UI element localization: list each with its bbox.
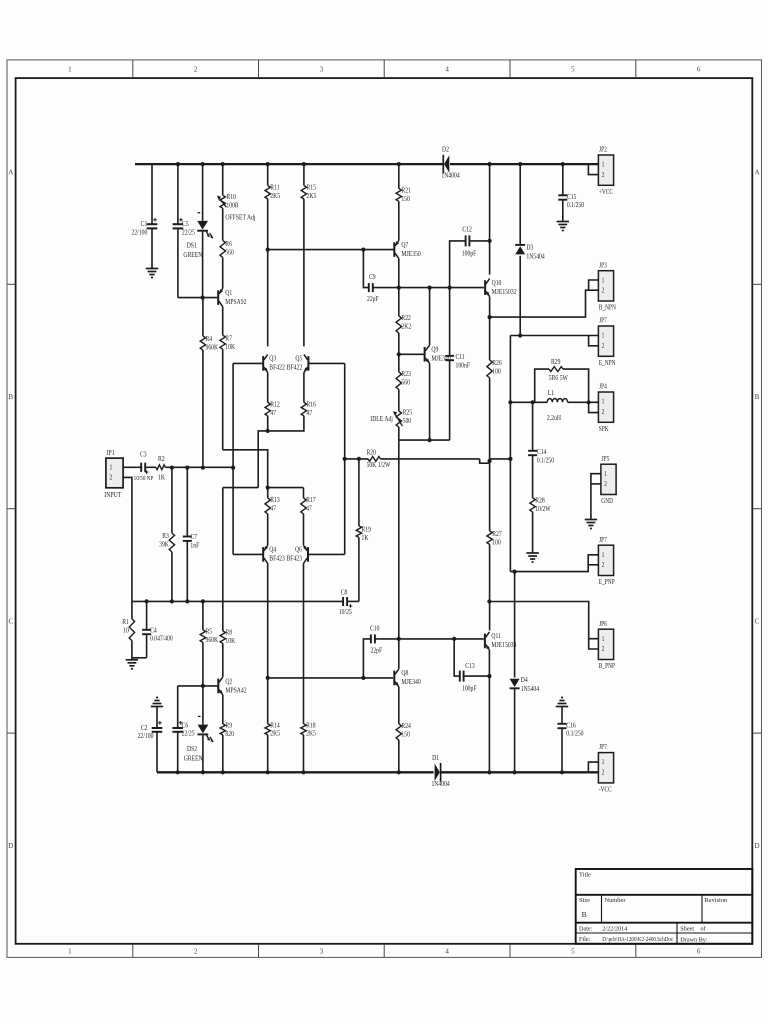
svg-text:C5: C5 [182, 220, 189, 228]
svg-text:BF422: BF422 [287, 364, 302, 372]
svg-text:5: 5 [571, 66, 575, 74]
svg-text:1: 1 [602, 398, 605, 406]
junction rail/Q11 [487, 770, 491, 774]
wire R27 leads [489, 463, 491, 531]
resistor R16 [301, 372, 316, 417]
wire Q10 emitter down [489, 297, 491, 360]
transistor Q4 [263, 545, 285, 563]
junction C11/node [448, 286, 452, 290]
junction rail/D3 [518, 162, 522, 166]
wire Q4 base [233, 553, 262, 555]
junction DS1/R4/base [201, 296, 205, 300]
wire output to speaker line [490, 458, 511, 460]
svg-text:Q10: Q10 [492, 279, 502, 287]
junction rail/R14 [266, 770, 270, 774]
junction B_PNP tap [487, 599, 491, 603]
svg-text:2K5: 2K5 [307, 192, 317, 200]
svg-text:R28: R28 [535, 497, 545, 505]
svg-text:100pF: 100pF [462, 250, 477, 258]
diode D1 [431, 754, 450, 788]
svg-text:R12: R12 [270, 401, 279, 409]
svg-text:2K2: 2K2 [401, 323, 411, 331]
svg-text:R26: R26 [492, 359, 502, 367]
wire L1 feed [510, 401, 547, 403]
wire JP1 pin2 down [123, 477, 132, 601]
svg-text:5R6 5W: 5R6 5W [549, 374, 569, 382]
junction return/R3 [170, 599, 174, 603]
resistor R4 [200, 298, 218, 352]
svg-text:Q4: Q4 [269, 546, 277, 554]
connector JP6 (B_PNP) [598, 620, 615, 670]
svg-text:R15: R15 [307, 184, 317, 192]
svg-text:MPSA92: MPSA92 [225, 298, 246, 306]
svg-text:OFFSET Adj: OFFSET Adj [225, 214, 255, 222]
svg-text:MJE15032: MJE15032 [492, 288, 517, 296]
svg-text:DS1: DS1 [187, 242, 197, 250]
wire VAS top node [399, 287, 484, 289]
svg-text:2: 2 [602, 287, 605, 295]
svg-text:Q3: Q3 [269, 355, 277, 363]
junction input/R3 [170, 466, 174, 470]
svg-text:File:: File: [579, 936, 591, 943]
transistor Q10 [485, 279, 516, 297]
ground below C1 [146, 267, 158, 278]
wire H3b [268, 487, 304, 489]
junction input/R4 [201, 466, 205, 470]
capacitor C5 [173, 164, 196, 298]
capacitor C4 [142, 601, 173, 657]
svg-text:100nF: 100nF [456, 362, 471, 370]
svg-text:R13: R13 [270, 496, 280, 504]
svg-text:1: 1 [602, 759, 605, 767]
svg-text:JP2: JP2 [599, 146, 607, 154]
wire E_NPN line [510, 335, 598, 337]
wire +VCC top rail left of D2 [135, 163, 443, 165]
junction input/C7 [185, 466, 189, 470]
svg-text:2: 2 [602, 769, 605, 777]
junction speaker line [508, 457, 512, 461]
wire DS1 cathode to node [202, 232, 204, 298]
resistor R8 [220, 488, 235, 645]
wire JP7b pin2 stub [588, 564, 598, 566]
svg-text:Q8: Q8 [401, 670, 409, 678]
svg-text:10K: 10K [225, 343, 235, 351]
connector JP7 (E_PNP) [598, 536, 615, 586]
ground below C15 [557, 220, 569, 231]
wire D4 bottom [514, 688, 516, 772]
wire JP3 feed [490, 290, 599, 317]
svg-text:150: 150 [401, 195, 410, 203]
resistor R11 [265, 164, 281, 200]
wire JP4 pin2 jumper [589, 402, 599, 412]
svg-text:Q5: Q5 [295, 355, 303, 363]
connector JP1 [104, 449, 123, 499]
junction rail/R21 [397, 162, 401, 166]
wire -VCC bottom rail right of D1 [440, 771, 598, 773]
junction rail/C6 [176, 770, 180, 774]
svg-text:Q2: Q2 [225, 678, 232, 686]
svg-text:3: 3 [320, 66, 324, 74]
svg-text:BF422: BF422 [269, 364, 284, 372]
diode D4 [510, 676, 540, 693]
svg-text:C4: C4 [150, 627, 157, 635]
connector JP3 (B_NPN) [598, 262, 616, 312]
resistor R13 [265, 488, 280, 514]
wire JP1 pin1 stub [123, 466, 137, 468]
junction rail/C16 [560, 770, 564, 774]
svg-text:Q7: Q7 [401, 241, 409, 249]
wire D3 bottom [519, 256, 521, 336]
svg-text:R7: R7 [225, 335, 232, 343]
wire Q6 base [309, 553, 345, 555]
wire inverting base vertical [232, 363, 234, 554]
svg-text:R18: R18 [306, 722, 316, 730]
resistor R15 [301, 164, 317, 200]
resistor R3 [159, 468, 174, 552]
capacitor C3 (10/50 NP) [134, 451, 154, 482]
wire R5 to Q2 base node [202, 642, 204, 686]
svg-text:1K: 1K [362, 534, 369, 542]
connector JP4 (SPK) [598, 383, 613, 433]
wire VAS vertical to lower [398, 440, 400, 639]
wire R14 to rail [267, 735, 269, 773]
svg-text:100: 100 [492, 539, 501, 547]
svg-text:C14: C14 [537, 448, 547, 456]
wire Q4 collector down [267, 563, 269, 678]
wire lower VAS node [379, 638, 484, 640]
capacitor C10 [363, 625, 382, 678]
svg-text:R24: R24 [401, 722, 411, 730]
junction rail/DS1 [201, 162, 205, 166]
junction rail/R11 [266, 162, 270, 166]
wire feedback base vertical [344, 363, 346, 554]
wire R21 to Q7 [398, 201, 400, 240]
wire Q3 base [233, 362, 262, 364]
connector JP7 (-VCC) [598, 744, 613, 794]
svg-text:1: 1 [602, 161, 605, 169]
wire JP3 pin1 jumper [589, 280, 599, 290]
junction return/R5 [201, 599, 205, 603]
LED DS2 [184, 716, 213, 762]
wire JP2 jumper [588, 164, 598, 175]
svg-text:C13: C13 [465, 662, 475, 670]
svg-text:1N5404: 1N5404 [521, 686, 540, 694]
wire R19 to C8 [358, 538, 360, 602]
svg-text:Q1: Q1 [225, 289, 232, 297]
wire Q10 collector line [489, 164, 491, 275]
wire R7 to H2 [222, 349, 224, 450]
junction Q9 collector/node [428, 286, 432, 290]
wire JP7c jumper [588, 762, 598, 772]
junction C14 top [531, 400, 535, 404]
svg-text:R3: R3 [162, 532, 169, 540]
svg-text:R19: R19 [362, 526, 371, 534]
svg-text:2: 2 [110, 474, 113, 482]
svg-text:47: 47 [306, 505, 312, 513]
svg-text:Drawn By:: Drawn By: [680, 937, 708, 944]
svg-text:D: D [8, 842, 13, 850]
svg-text:1N4004: 1N4004 [431, 780, 450, 788]
junction rail/R10 [221, 162, 225, 166]
resistor R22 [396, 288, 411, 333]
wire JP6 feed [489, 602, 598, 639]
wire Q6 collector down [303, 563, 305, 723]
junction rail/DS2 [201, 770, 205, 774]
junction return/C4 [145, 599, 149, 603]
svg-text:960K: 960K [206, 636, 219, 644]
svg-text:560: 560 [225, 249, 234, 257]
wire H1 emitter join [267, 416, 269, 431]
svg-text:150: 150 [401, 731, 410, 739]
transistor Q5 [287, 354, 309, 372]
svg-text:22/25: 22/25 [182, 730, 196, 738]
wire R3 bottom [171, 552, 173, 602]
wire R4 to input node [202, 350, 204, 468]
wire H3a [223, 487, 258, 489]
svg-text:6: 6 [697, 66, 701, 74]
junction rail/D4 [513, 770, 517, 774]
wire DS2 top [202, 686, 204, 725]
svg-text:D:\pcb\HA-1200\K2-2400.SchDoc: D:\pcb\HA-1200\K2-2400.SchDoc [602, 937, 673, 943]
svg-text:C9: C9 [369, 274, 376, 282]
svg-text:R14: R14 [270, 722, 280, 730]
svg-text:2: 2 [194, 66, 198, 74]
junction C13/Q11 line [487, 674, 491, 678]
svg-text:1N5404: 1N5404 [526, 253, 545, 261]
svg-text:10/2W: 10/2W [535, 505, 551, 513]
svg-text:Q6: Q6 [295, 546, 303, 554]
svg-text:MJE340: MJE340 [401, 679, 421, 687]
svg-text:560: 560 [401, 379, 410, 387]
wire Q7 collector [398, 259, 400, 288]
capacitor C11 [445, 288, 470, 441]
svg-text:500: 500 [403, 417, 412, 425]
svg-text:DS2: DS2 [187, 746, 197, 754]
diode D3 [515, 244, 545, 261]
junction Q7c/node [397, 286, 401, 290]
svg-text:D1: D1 [432, 754, 439, 762]
svg-text:2K5: 2K5 [306, 730, 316, 738]
svg-text:L1: L1 [548, 390, 554, 398]
resistor R20 [345, 449, 480, 469]
junction L1 feed [508, 400, 512, 404]
junction rail/R15 [302, 162, 306, 166]
svg-text:6: 6 [697, 948, 701, 956]
junction D3/E_NPN [518, 333, 522, 337]
svg-text:C10: C10 [370, 625, 380, 633]
svg-text:2: 2 [602, 562, 605, 570]
resistor R23 [396, 354, 411, 389]
svg-text:2: 2 [602, 342, 605, 350]
wire H2 [223, 450, 268, 488]
resistor R21 [396, 164, 411, 203]
svg-text:22pF: 22pF [367, 295, 379, 303]
svg-text:R27: R27 [492, 530, 502, 538]
svg-text:R10: R10 [226, 193, 236, 201]
junction C9 tap [361, 248, 365, 252]
wire R15 to Q5 [303, 199, 305, 347]
wire DS1 anode [202, 164, 204, 221]
capacitor C7 [183, 468, 200, 602]
capacitor C15 [558, 164, 584, 219]
svg-text:D3: D3 [526, 244, 534, 252]
svg-text:1: 1 [602, 551, 605, 559]
svg-text:GREEN: GREEN [184, 755, 203, 763]
svg-text:0.047/400: 0.047/400 [150, 635, 173, 643]
svg-text:R17: R17 [306, 496, 316, 504]
svg-text:MPSA42: MPSA42 [225, 687, 246, 695]
svg-text:Date:: Date: [579, 926, 593, 933]
wire R20 jog to output [480, 459, 490, 463]
svg-text:Title: Title [579, 872, 591, 879]
svg-text:R22: R22 [401, 314, 410, 322]
svg-text:D: D [754, 842, 759, 850]
wire R13 to Q4 [267, 514, 269, 546]
svg-text:1: 1 [110, 464, 113, 472]
svg-text:47: 47 [270, 409, 276, 417]
svg-text:R4: R4 [206, 335, 213, 343]
resistor R12 [265, 372, 280, 417]
transistor Q6 [287, 545, 308, 563]
junction C10 tap [361, 676, 365, 680]
junction input/base line [231, 466, 235, 470]
junction Q8 collector/node [397, 637, 401, 641]
svg-text:2: 2 [602, 171, 605, 179]
title block [576, 869, 753, 944]
svg-text:100: 100 [492, 368, 501, 376]
transistor Q11 [485, 632, 517, 650]
svg-text:MJE350: MJE350 [401, 250, 421, 258]
transistor Q1 [218, 257, 246, 306]
wire R9 to rail [222, 735, 224, 772]
svg-text:JP6: JP6 [599, 620, 607, 628]
resistor R28 [530, 497, 552, 513]
svg-text:2K5: 2K5 [270, 192, 280, 200]
svg-text:B: B [8, 393, 13, 401]
wire bias bottom [399, 439, 450, 441]
transistor Q7 [394, 241, 421, 259]
svg-text:A: A [754, 169, 759, 177]
transistor Q2 [218, 643, 246, 695]
wire R28 to ground [532, 512, 534, 551]
inductor L1 [547, 390, 599, 422]
svg-text:100pF: 100pF [462, 685, 477, 693]
svg-text:A: A [8, 169, 13, 177]
svg-text:R21: R21 [401, 187, 410, 195]
svg-text:1: 1 [604, 470, 607, 478]
svg-text:INPUT: INPUT [104, 491, 121, 499]
resistor R19 [356, 459, 371, 542]
junction R13 top [266, 486, 270, 490]
svg-text:960K: 960K [206, 344, 219, 352]
transistor Q9 [425, 288, 452, 441]
svg-text:JP7: JP7 [599, 536, 607, 544]
svg-text:-VCC: -VCC [599, 786, 612, 794]
potentiometer R10 OFFSET Adj [217, 164, 256, 221]
junction C13/node [452, 637, 456, 641]
capacitor C13 [454, 639, 489, 693]
transistor Q3 [263, 354, 285, 372]
junction rail/C15 [561, 162, 565, 166]
junction Q9 base tap [397, 352, 401, 356]
svg-text:1: 1 [602, 332, 605, 340]
capacitor C16 [556, 698, 584, 773]
wire Q1 base line [178, 297, 218, 299]
wire R24 to rail [398, 740, 400, 773]
junction rail/R9 [221, 770, 225, 774]
svg-text:1K: 1K [158, 474, 165, 482]
svg-text:1N4004: 1N4004 [441, 172, 460, 180]
wire Q8 collector [398, 639, 400, 669]
wire Q2 base line [178, 685, 218, 687]
svg-text:10K: 10K [225, 637, 235, 645]
svg-text:1nF: 1nF [190, 542, 199, 550]
resistor R1 [122, 601, 134, 640]
ground below R28 [526, 551, 538, 562]
junction R20/base line [343, 457, 347, 461]
svg-text:4: 4 [445, 948, 449, 956]
wire +VCC top rail right of D2 [450, 163, 598, 165]
svg-text:C6: C6 [182, 722, 189, 730]
svg-text:2.2uH: 2.2uH [547, 414, 561, 422]
resistor R6 [220, 208, 234, 257]
svg-text:10/50 NP: 10/50 NP [134, 476, 154, 483]
svg-text:R29: R29 [551, 359, 560, 367]
wire R11 to Q3 [267, 199, 269, 347]
wire H1 [258, 416, 304, 488]
wire R26 to output [489, 378, 491, 463]
svg-text:D2: D2 [442, 146, 449, 154]
resistor R29 [535, 359, 589, 403]
svg-text:JP7: JP7 [599, 317, 607, 325]
svg-text:2/22/2014: 2/22/2014 [602, 926, 627, 933]
wire DS2 bottom [202, 735, 204, 772]
junction rail/Q10 line [488, 162, 492, 166]
resistor R27 [487, 530, 502, 546]
svg-text:C3: C3 [140, 451, 147, 459]
svg-text:Size: Size [579, 897, 590, 904]
svg-text:4: 4 [445, 66, 449, 74]
junction rail/C5 [176, 162, 180, 166]
svg-text:Q11: Q11 [491, 633, 501, 641]
resistor R14 [265, 678, 281, 738]
svg-text:Q9: Q9 [431, 346, 438, 354]
capacitor C14 [528, 402, 555, 498]
LED DS1 [183, 213, 212, 259]
wire Q7 base line [268, 249, 394, 251]
svg-text:R5: R5 [206, 628, 213, 636]
wire -VCC bottom rail left of D1 [157, 771, 434, 773]
svg-text:0.1/250: 0.1/250 [566, 730, 584, 738]
junction DS2/R5/base [201, 684, 205, 688]
svg-text:1: 1 [68, 948, 72, 956]
junction output node [488, 459, 492, 463]
wire signal return line [132, 600, 343, 602]
svg-text:22pF: 22pF [371, 647, 383, 655]
wire R22-R23 [398, 333, 400, 354]
svg-text:22/100: 22/100 [138, 732, 154, 740]
junction rail/R24 [397, 770, 401, 774]
capacitor C6 [172, 686, 195, 772]
wire R17 to Q6 [303, 514, 305, 546]
transistor Q8 [394, 669, 421, 687]
svg-text:10/25: 10/25 [339, 608, 353, 616]
svg-text:BF423: BF423 [287, 555, 303, 563]
wire R27 to Q11 [489, 544, 491, 630]
capacitor C12 [450, 226, 490, 287]
svg-text:22/100: 22/100 [131, 229, 147, 237]
svg-text:C: C [8, 617, 13, 625]
